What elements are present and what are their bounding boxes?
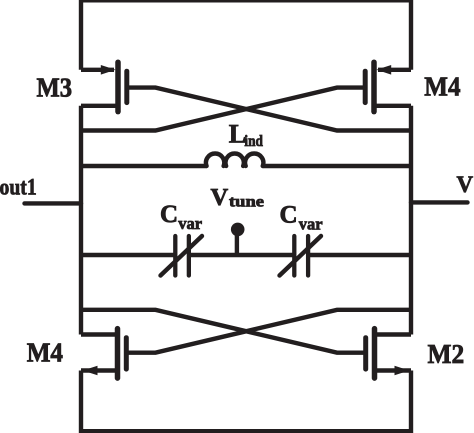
wire cross-couple left node to M2 gate bbox=[81, 310, 364, 353]
svg-text:M3: M3 bbox=[37, 73, 73, 103]
transistor M4 top channel bar bbox=[371, 62, 377, 111]
transistor M4 (top right PMOS) bbox=[365, 62, 411, 111]
wire left node rail (out1 net) bbox=[79, 106, 83, 335]
svg-text:out1: out1 bbox=[0, 175, 37, 200]
transistor M3 source wire bbox=[81, 68, 114, 72]
transistor M4b source wire bbox=[81, 368, 118, 372]
transistor M4b drain wire bbox=[81, 332, 118, 336]
varactor C1 slash bbox=[161, 236, 203, 276]
transistor M2 source wire bbox=[375, 368, 412, 372]
svg-text:var: var bbox=[299, 215, 323, 234]
inductor Lind coils bbox=[206, 153, 263, 166]
wire varactor row middle segment bbox=[189, 253, 294, 257]
transistor M4b gate bar bbox=[124, 338, 129, 369]
svg-text:C: C bbox=[160, 201, 178, 228]
inductor Lind left lead wire bbox=[81, 164, 207, 168]
transistor M4 top source wire bbox=[378, 68, 411, 72]
svg-text:V: V bbox=[211, 184, 229, 211]
svg-text:V: V bbox=[457, 172, 474, 197]
transistor M4b source arrow bbox=[83, 366, 98, 376]
transistor M4 top gate bar bbox=[363, 71, 368, 102]
inductor Lind right lead wire bbox=[263, 164, 411, 168]
varactor Cvar left bbox=[161, 236, 203, 276]
wire cross-couple M4b gate to right node bbox=[129, 310, 412, 353]
varactor Cvar right bbox=[280, 236, 322, 276]
transistor M2 drain wire bbox=[375, 332, 412, 336]
transistor M4 top drain wire bbox=[374, 104, 411, 108]
ground bottom rail bbox=[81, 371, 411, 432]
varactor C1 right plate bbox=[187, 236, 191, 276]
wire varactor row left segment bbox=[81, 253, 175, 257]
varactor C2 slash bbox=[280, 236, 322, 276]
svg-text:M2: M2 bbox=[428, 339, 465, 369]
transistor M4b channel bar bbox=[115, 329, 121, 378]
transistor M4b (bottom left NMOS) bbox=[81, 329, 126, 378]
wire cross-couple M3 gate to right node bbox=[129, 88, 411, 131]
transistor M2 gate bar bbox=[363, 338, 368, 369]
wire cross-couple left node to M4 gate bbox=[81, 88, 363, 131]
wire output out1 tap bbox=[25, 201, 82, 205]
wire varactor row right segment bbox=[308, 253, 411, 257]
node Vtune junction dot bbox=[231, 223, 245, 237]
transistor M3 channel bar bbox=[115, 62, 121, 111]
transistor M3 source arrow bbox=[101, 65, 116, 75]
svg-text:M4: M4 bbox=[424, 72, 460, 102]
varactor C2 left plate bbox=[292, 236, 296, 276]
wire output out2 tap bbox=[411, 200, 468, 204]
svg-text:C: C bbox=[280, 202, 298, 229]
varactor C1 left plate bbox=[173, 236, 177, 276]
svg-text:M4: M4 bbox=[27, 338, 63, 368]
svg-text:tune: tune bbox=[229, 194, 264, 211]
wire Vtune stem bbox=[235, 229, 239, 255]
transistor M2 (bottom right NMOS) bbox=[366, 329, 411, 378]
transistor M2 channel bar bbox=[372, 329, 378, 378]
transistor M4 top source arrow bbox=[376, 65, 391, 75]
svg-text:var: var bbox=[178, 214, 202, 233]
varactor C2 right plate bbox=[306, 236, 310, 276]
transistor M3 (top left PMOS) bbox=[81, 62, 127, 111]
transistor M3 drain wire bbox=[81, 104, 118, 108]
wire right node rail (out2 net) bbox=[409, 106, 413, 335]
transistor M3 gate bar bbox=[124, 71, 129, 102]
transistor M2 source arrow bbox=[395, 366, 410, 376]
wire VDD top rail bbox=[81, 0, 411, 70]
svg-text:ind: ind bbox=[244, 133, 263, 150]
